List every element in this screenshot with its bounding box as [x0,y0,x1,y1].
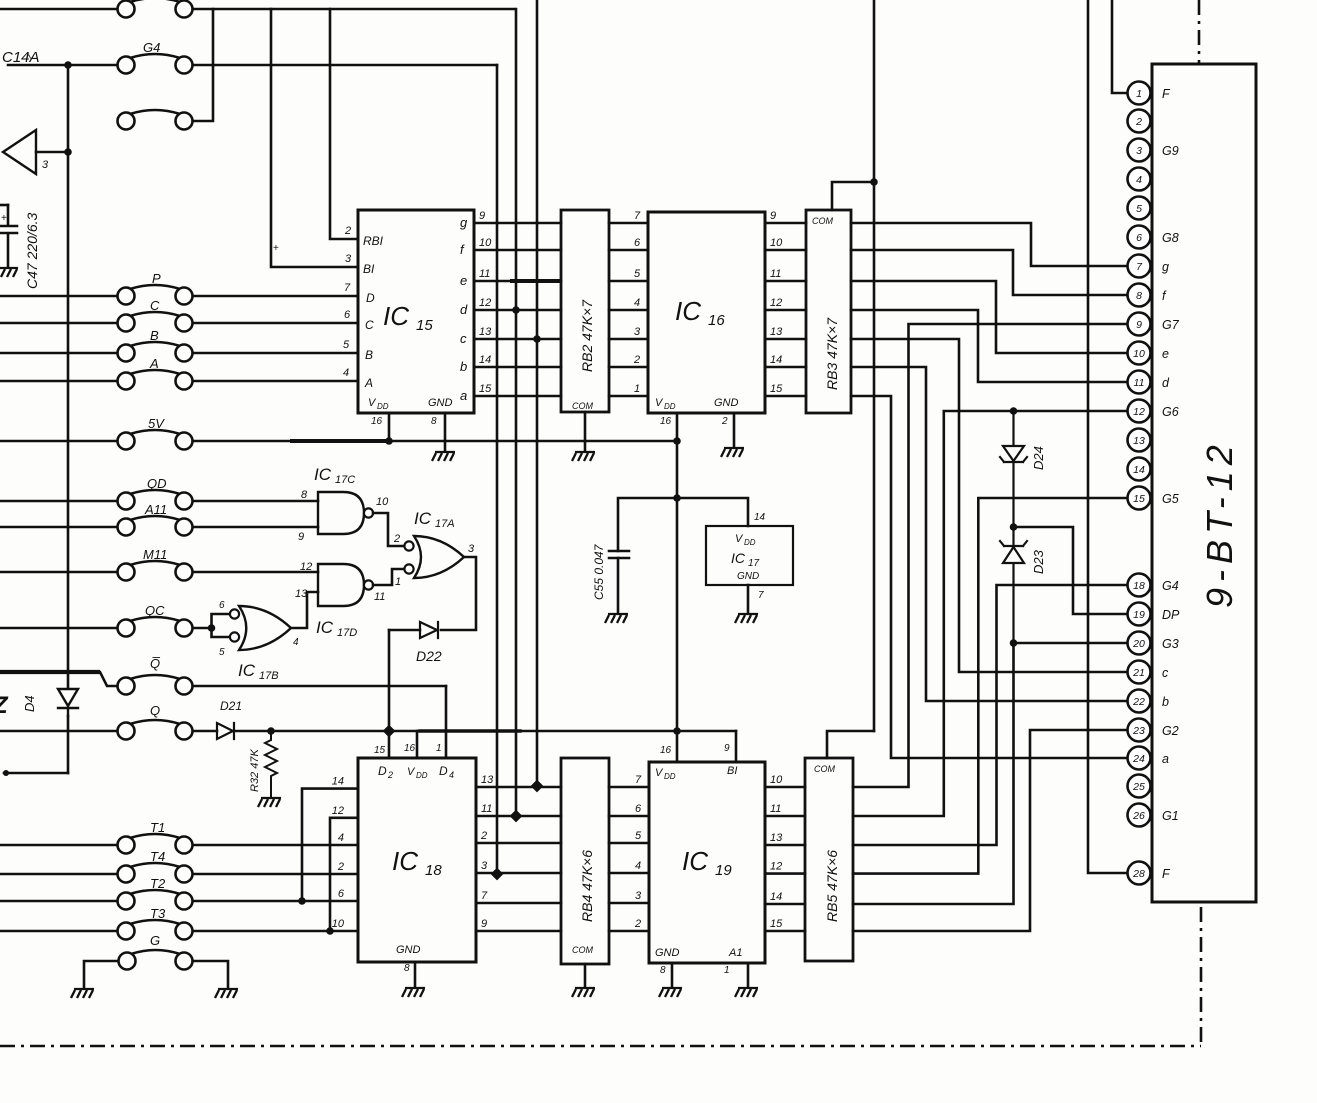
svg-text:25: 25 [1132,781,1145,793]
svg-text:24: 24 [1132,753,1145,765]
wire D22 anode to D2 line [389,629,420,632]
svg-text:IC: IC [316,618,334,637]
wire RB2 to IC16 pin 7 [609,222,648,225]
ground G left [71,989,94,998]
node QC split [208,624,216,632]
OR gate IC17A [414,536,464,578]
wire QC to IC17B inputs [212,614,231,637]
connector pin 23 G2 [1128,719,1151,742]
resistor network RB5 body [805,758,853,961]
ground IC19 A1 [735,988,758,997]
svg-text:DD: DD [416,771,428,780]
wire IC16 Vdd pin16 / bus x677 [676,413,679,762]
svg-text:G4: G4 [143,40,160,55]
svg-text:19: 19 [715,862,732,879]
IC IC15 body [358,210,474,413]
wire IC19 out 10 to RB5 [765,786,805,789]
connector pads Qbar [118,675,193,695]
border dash-dot right [1200,907,1203,1046]
svg-text:14: 14 [770,891,782,903]
connector pin 6 G8 [1128,226,1151,249]
svg-text:9: 9 [479,210,485,222]
svg-text:12: 12 [770,861,782,873]
wire IC15 RBI pin2 [330,9,358,239]
svg-text:1: 1 [634,383,640,395]
svg-text:P: P [152,271,161,286]
ground IC15 [432,452,455,461]
svg-text:T3: T3 [150,906,166,921]
wire IC18 out 3 to RB4 [476,872,561,875]
ground IC19 [659,988,682,997]
NAND gate IC17D [318,564,364,606]
svg-text:17A: 17A [435,518,455,530]
resistor network RB3 body [806,210,851,413]
svg-text:DD: DD [664,772,676,781]
svg-text:b: b [1162,695,1169,709]
node IC15 Vdd / 5V row [385,437,393,445]
svg-text:20: 20 [1132,638,1145,650]
connector pads T1 [118,834,193,854]
svg-text:4: 4 [634,297,640,309]
wire RB2 to IC16 pin 5 [609,280,648,283]
svg-text:9: 9 [770,210,776,222]
wire IC18 out 7 to RB4 [476,902,561,905]
svg-text:a: a [460,388,467,403]
wire pin28 F [1088,0,1127,873]
svg-text:DD: DD [664,402,676,411]
node row13 / x537 [531,780,544,793]
diode D23 [1000,527,1027,643]
ground RB2 [572,452,595,461]
svg-text:IC: IC [383,301,409,331]
wire segment G6 pin12 [853,411,1127,816]
svg-text:4: 4 [449,770,454,780]
svg-text:2: 2 [634,918,641,930]
svg-text:COM: COM [814,764,836,774]
svg-text:A11: A11 [144,502,167,517]
node RB3 COM / x874 [870,178,878,186]
svg-text:17: 17 [748,558,760,569]
connector pin 13 [1128,429,1151,452]
svg-text:2: 2 [337,861,344,873]
svg-text:4: 4 [1136,174,1142,186]
svg-text:G5: G5 [1162,492,1179,506]
wire IC15 Vdd pin16 [388,413,391,441]
svg-text:e: e [1162,347,1169,361]
connector pads G4 [118,54,193,74]
svg-text:IC: IC [675,296,701,326]
gate IC17A input bubbles [404,541,413,550]
svg-text:2: 2 [387,770,393,780]
svg-text:14: 14 [332,776,344,788]
wire C55 branch [618,498,677,551]
wire RB2 COM pin [584,412,587,450]
svg-text:14: 14 [770,354,782,366]
svg-text:2: 2 [344,225,351,237]
wire IC15 out c to RB2 [474,338,561,341]
wire segment e pin10 [851,281,1127,353]
connector pads G [119,950,193,970]
svg-text:7: 7 [635,774,642,786]
svg-text:D24: D24 [1031,446,1046,470]
svg-text:3: 3 [1136,145,1142,157]
svg-text:GND: GND [714,397,739,409]
wire IC14A output [36,151,68,154]
wire overdraw b-row dashes [940,700,1028,702]
node Q row / R32 [267,727,275,735]
svg-text:d: d [460,302,468,317]
svg-text:10: 10 [479,237,492,249]
IC IC17 power box [706,526,793,585]
svg-text:D22: D22 [416,648,442,664]
wire row A11 [0,526,117,529]
connector pads B [118,342,193,362]
connector pin 3 G9 [1128,139,1151,162]
wire D2 vertical x389 [388,630,391,758]
wire overdraw 5V [292,439,390,443]
wire IC19 out 12 to RB5 [765,872,805,875]
svg-text:1: 1 [724,965,730,976]
svg-text:17C: 17C [335,474,355,486]
svg-text:g: g [1162,260,1169,274]
wire RB4 to IC19 pin 4 [609,872,649,875]
ground C55 [605,614,628,623]
svg-text:QC: QC [145,603,165,618]
wire RB2 to IC16 pin 2 [609,366,648,369]
svg-text:4: 4 [343,367,349,379]
node T2 row / x302 [298,897,306,905]
svg-text:10: 10 [376,496,389,508]
svg-text:IC: IC [414,509,432,528]
svg-text:1: 1 [436,743,442,754]
wire row Q [0,730,117,733]
svg-text:15: 15 [374,745,386,756]
svg-text:8: 8 [301,489,308,501]
wire segment g pin7 [851,223,1127,266]
svg-text:A: A [364,376,373,390]
svg-text:13: 13 [1133,435,1145,447]
wire G right to ground [193,961,228,987]
wire IC16 out 12 to RB3 [765,309,806,312]
node d-row / x516 [512,306,520,314]
wire G4 row [8,64,117,67]
svg-text:IC: IC [314,465,332,484]
wire row T4 [0,873,117,876]
connector pin 10 e [1128,342,1151,365]
svg-text:10: 10 [332,918,345,930]
wire RB2 to IC16 pin 6 [609,249,648,252]
connector pin 24 a [1128,747,1151,770]
wire IC16 out 10 to RB3 [765,249,806,252]
svg-text:13: 13 [770,832,783,844]
wire IC15 out a to RB2 [474,395,561,398]
svg-text:3: 3 [345,253,352,265]
svg-text:D: D [378,764,387,778]
svg-text:B: B [365,348,373,362]
wire IC16 GND pin2 [733,413,736,446]
wire overdraw e-row [512,279,560,283]
svg-text:2: 2 [721,416,728,427]
svg-text:GND: GND [737,571,759,582]
svg-text:13: 13 [770,326,783,338]
wire IC15 out e to RB2 [474,280,561,283]
svg-text:R32 47K: R32 47K [249,749,261,792]
svg-text:14: 14 [1133,464,1145,476]
ground IC16 [721,448,744,457]
wire row T1 [0,844,117,847]
svg-text:11: 11 [374,591,385,603]
svg-text:IC: IC [731,550,746,566]
node row11 / x516 [510,810,523,823]
svg-text:14: 14 [479,354,491,366]
svg-text:+: + [1,213,7,224]
svg-text:Q: Q [150,703,160,718]
wire row P [0,295,117,298]
ground IC17 [735,614,758,623]
wire vertical x874 5V bus [873,0,876,731]
svg-text:7: 7 [481,890,488,902]
wire RB2 to IC16 pin 4 [609,309,648,312]
svg-text:5V: 5V [148,416,165,431]
wire IC15 BI pin3 [271,9,358,267]
svg-text:A1: A1 [728,947,742,959]
wire IC18 out 11 to RB4 [476,815,561,818]
capacitor C55 0.047 [609,550,629,553]
gate IC17B input bubbles [230,609,239,618]
svg-text:COM: COM [812,216,834,226]
svg-text:14: 14 [754,512,766,523]
svg-text:M11: M11 [143,547,167,562]
wire segment d pin11 [851,310,1127,382]
svg-text:19: 19 [1133,609,1145,621]
wire IC15 out b to RB2 [474,366,561,369]
connector pin 5 [1128,197,1151,220]
svg-text:G3: G3 [1162,637,1179,651]
node IC14A out / x68 [64,148,72,156]
svg-text:12: 12 [479,297,491,309]
svg-text:D21: D21 [220,699,242,713]
wire segment f pin8 [851,250,1127,295]
node G4 / x68 [64,61,72,69]
svg-text:2: 2 [480,830,487,842]
node IC16 Vdd / 5V row [673,437,681,445]
connector pin 11 d [1128,371,1151,394]
svg-text:11: 11 [1134,377,1145,389]
svg-text:G: G [150,933,160,948]
svg-text:b: b [460,359,467,374]
wire IC17 GND pin7 [747,585,750,612]
svg-text:4: 4 [635,860,641,872]
svg-text:15: 15 [770,918,783,930]
ground IC18 [402,988,425,997]
wire row B [0,352,117,355]
wire IC16 out 13 to RB3 [765,338,806,341]
svg-text:5: 5 [343,339,350,351]
wire RB4 COM pin [584,964,587,986]
connector pads A11 [118,516,193,536]
svg-text:+: + [273,243,279,254]
svg-text:22: 22 [1132,696,1145,708]
svg-text:e: e [460,273,467,288]
svg-text:4: 4 [293,637,299,648]
wire segment b pin22 [851,367,1127,701]
gate IC17D output bubble [364,580,373,589]
wire vertical bus x516 (top row to IC18 pin11) [515,9,518,816]
wire row QD [0,500,117,503]
wire segment a pin24 [851,396,1127,758]
wire RB4 to IC19 pin 6 [609,815,649,818]
ground RB4 [572,988,595,997]
connector pads Q [118,720,193,740]
svg-text:13: 13 [481,774,494,786]
svg-text:G7: G7 [1162,318,1180,332]
svg-text:6: 6 [338,888,345,900]
svg-text:15: 15 [479,383,492,395]
svg-text:g: g [460,215,468,230]
wire IC19 A1 pin1 [747,963,750,986]
connector pin 4 [1128,168,1151,191]
connector pads QC [118,617,193,637]
svg-text:1: 1 [1136,88,1142,100]
svg-text:7: 7 [634,210,641,222]
svg-text:C55 0.047: C55 0.047 [592,543,606,600]
connector pads A [118,370,193,390]
connector pads T4 [118,863,193,883]
svg-text:RBI: RBI [363,234,384,248]
svg-text:9: 9 [724,743,730,754]
wire IC15 out g to RB2 [474,222,561,225]
node c-row / x537 [533,335,541,343]
svg-text:7: 7 [344,282,351,294]
connector pads P [118,285,193,305]
svg-text:BI: BI [363,262,375,276]
wire IC17D out to IC17A in1 [373,569,404,585]
op-amp IC14A [3,130,36,174]
svg-text:8: 8 [431,416,437,427]
svg-text:9: 9 [1136,319,1142,331]
svg-text:C: C [365,318,374,332]
svg-text:G9: G9 [1162,144,1179,158]
wire IC17B out to IC17D pin13 [291,592,318,628]
wire IC19 GND pin8 [671,963,674,986]
wire IC19 out 14 to RB5 [765,903,805,906]
wire segment G4 pin18 [853,585,1127,845]
wire DP to pin19 [1014,527,1128,614]
connector pads J3 [118,110,193,130]
svg-text:17B: 17B [259,670,279,682]
svg-text:12: 12 [1133,406,1145,418]
svg-text:15: 15 [770,383,783,395]
wire IC16 out 11 to RB3 [765,280,806,283]
svg-text:16: 16 [371,416,383,427]
svg-text:RB3 47K×7: RB3 47K×7 [824,317,840,390]
wire row Qbar [0,672,117,686]
svg-text:11: 11 [479,268,490,280]
svg-text:G1: G1 [1162,809,1179,823]
wire RB4 to IC19 pin 3 [609,902,649,905]
wire segment G5 pin15 [853,498,1127,874]
svg-text:10: 10 [770,237,783,249]
wire overdraw Qbar left [0,670,98,674]
node Q row / D2 [383,725,396,738]
svg-text:8: 8 [1136,290,1142,302]
resistor network RB4 body [561,758,609,964]
svg-text:16: 16 [404,743,416,754]
svg-text:4: 4 [338,832,344,844]
connector pin 1 F [1128,82,1151,105]
svg-text:QD: QD [147,476,167,491]
connector pin 21 c [1128,661,1151,684]
svg-text:5: 5 [1136,203,1142,215]
wire IC15 out d to RB2 [474,309,561,312]
connector pin 12 G6 [1128,400,1151,423]
svg-text:8: 8 [404,963,410,974]
connector pin 25 [1128,775,1151,798]
svg-text:c: c [460,331,467,346]
svg-text:23: 23 [1132,725,1145,737]
svg-text:15: 15 [416,317,433,334]
svg-text:d: d [1162,376,1170,390]
svg-text:15: 15 [1133,493,1145,505]
svg-text:6: 6 [1136,232,1142,244]
wire IC17 Vdd branch [677,498,748,526]
wire row T2 [0,900,117,903]
wire IC16 out 15 to RB3 [765,395,806,398]
wire vertical x68 [67,65,70,688]
wire segment G3 pin20 [853,643,1127,904]
svg-text:9: 9 [481,918,487,930]
svg-text:IC: IC [238,661,256,680]
svg-text:8: 8 [660,965,666,976]
svg-text:D23: D23 [1031,549,1046,574]
ground G right [215,989,238,998]
border dash-dot top right [1198,0,1201,63]
wire IC19 out 15 to RB5 [765,930,805,933]
svg-text:T2: T2 [150,876,166,891]
svg-text:a: a [1162,752,1169,766]
wire vertical x537 (page top to IC18 pin13) [536,0,539,786]
svg-text:2: 2 [1135,116,1142,128]
border dash-dot bottom [0,1045,1201,1048]
svg-text:5: 5 [635,830,642,842]
wire IC18 Vdd pin16 [416,731,419,758]
svg-text:T1: T1 [150,820,165,835]
svg-text:26: 26 [1132,810,1145,822]
svg-text:A: A [149,356,159,371]
svg-text:12: 12 [300,561,312,573]
wire row QC [0,627,117,630]
wire RB2 to IC16 pin 1 [609,395,648,398]
svg-text:D: D [439,764,448,778]
OR gate IC17B [239,606,291,650]
wire IC18 GND pin8 [414,962,417,986]
svg-text:G6: G6 [1162,405,1179,419]
wire overdraw Q mid [420,729,520,732]
wire pin1 F [1112,0,1127,93]
svg-text:GND: GND [428,397,453,409]
wire RB4 to IC19 pin 2 [609,930,649,933]
node row3 / x497 [491,868,504,881]
svg-text:3: 3 [468,543,475,555]
svg-text:6: 6 [634,237,641,249]
wire G left to ground [84,961,118,987]
svg-text:Q̅: Q̅ [150,656,160,671]
wire row A [0,380,117,383]
wire top row J1 [0,8,117,11]
wire segment c pin21 [851,339,1127,672]
svg-text:18: 18 [1133,580,1145,592]
connector 9-BT-12 body [1152,64,1256,902]
